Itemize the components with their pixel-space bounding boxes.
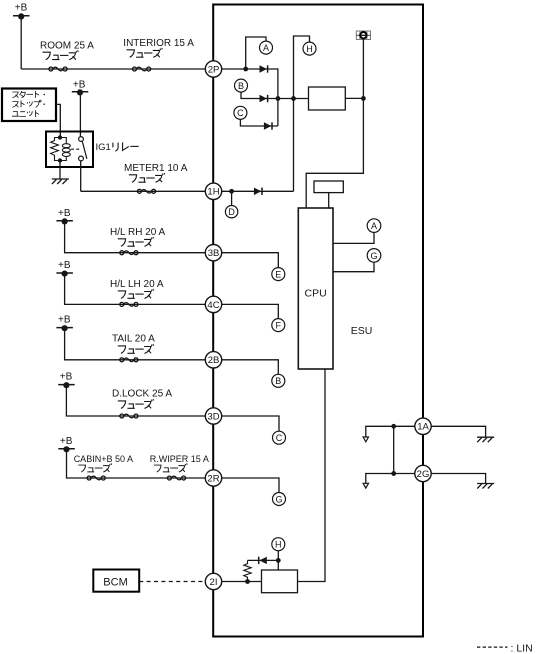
node A (circle) bbox=[260, 41, 273, 54]
svg-text:A: A bbox=[263, 43, 269, 53]
connector 2I bbox=[205, 573, 221, 589]
node C (circle) bbox=[234, 106, 247, 119]
relay IG1 box bbox=[46, 132, 93, 168]
node junction dot 1H row bbox=[229, 189, 234, 194]
node +B6 terminal bbox=[58, 372, 74, 389]
node junction dot 2G row bbox=[391, 471, 396, 476]
svg-text:2P: 2P bbox=[208, 64, 220, 75]
wire 4C row to circle F bbox=[222, 304, 279, 318]
svg-text:3B: 3B bbox=[208, 248, 220, 259]
relay actuator dashed link bbox=[71, 148, 80, 150]
svg-text:D.LOCK 25 A: D.LOCK 25 A bbox=[112, 389, 172, 400]
svg-text:TAIL 20 A: TAIL 20 A bbox=[112, 334, 155, 345]
diode D-1H row bbox=[254, 188, 262, 195]
svg-text:+B: +B bbox=[60, 436, 73, 447]
svg-text:H: H bbox=[306, 44, 313, 54]
ground right of 2G bbox=[477, 484, 494, 489]
wire elbow up to circle A bbox=[246, 37, 266, 69]
BCM box bbox=[93, 570, 139, 592]
svg-text:F: F bbox=[276, 321, 282, 331]
label フューズ (fuse) row2 bbox=[129, 173, 165, 182]
connector 2R bbox=[205, 470, 221, 486]
svg-text:METER1 10 A: METER1 10 A bbox=[124, 163, 188, 174]
ground right of 1A bbox=[477, 437, 494, 442]
svg-text:B: B bbox=[238, 81, 244, 91]
svg-text:G: G bbox=[370, 251, 377, 261]
svg-text:R.WIPER 15 A: R.WIPER 15 A bbox=[150, 454, 209, 464]
wire 2I row inside to small block bbox=[222, 581, 262, 583]
relay node top junction bbox=[58, 135, 62, 139]
svg-text:+B: +B bbox=[73, 80, 86, 91]
relay switch blade bbox=[82, 141, 87, 159]
svg-text:+B: +B bbox=[15, 3, 28, 14]
node junction dot right of R1 bbox=[361, 96, 366, 101]
node H2 (circle) bbox=[272, 538, 285, 551]
wire row1 horizontal to 2P bbox=[21, 68, 206, 70]
node C2 (circle) bbox=[273, 431, 286, 444]
fuse TAIL 20 A bbox=[112, 334, 155, 362]
connector 1A bbox=[415, 418, 431, 434]
wire 2B row to circle B2 bbox=[222, 360, 279, 375]
svg-text:2R: 2R bbox=[207, 473, 219, 484]
wire 2G row left with arrow bbox=[366, 474, 415, 484]
label フューズ (fuse) row3 bbox=[118, 237, 154, 246]
wire bolt symbol down through junction to CPU top bbox=[306, 40, 363, 209]
small block above CPU bbox=[314, 181, 343, 193]
node E (circle) bbox=[272, 268, 285, 281]
node +B4 terminal bbox=[56, 260, 72, 277]
wire +B1 down bbox=[20, 16, 22, 69]
wire +B4 down and row4 to 4C bbox=[65, 273, 206, 304]
svg-text:CABIN+B 50 A: CABIN+B 50 A bbox=[74, 454, 133, 464]
ESU box outline bbox=[213, 5, 423, 637]
wire 2G right to ground bbox=[431, 474, 485, 484]
relay coil resistor zigzag bbox=[51, 138, 60, 161]
wire 3B row to circle E bbox=[222, 253, 279, 268]
wire B elbow and row B bbox=[241, 92, 309, 98]
wire +B2 down to relay switch bbox=[79, 92, 81, 137]
node junction dot at 2P branch bbox=[243, 67, 248, 72]
wire 2R row to circle G bbox=[222, 478, 279, 493]
fuse R.WIPER 15 A bbox=[150, 454, 209, 480]
node G2 (circle) bbox=[367, 249, 381, 263]
node +B2 terminal bbox=[72, 80, 89, 96]
wire unit box to relay coil bbox=[56, 104, 60, 137]
svg-text:B: B bbox=[275, 376, 281, 386]
resistor block R1 bbox=[309, 87, 346, 110]
wire 2P to junction and diode row A bbox=[222, 69, 278, 126]
svg-text:4C: 4C bbox=[207, 300, 219, 311]
legend LIN dashed sample bbox=[477, 646, 508, 648]
svg-text:C: C bbox=[276, 433, 283, 443]
connector 3D bbox=[205, 408, 221, 424]
node junction dot under H2 bbox=[276, 558, 281, 563]
svg-text:+B: +B bbox=[58, 315, 71, 326]
connector 2G bbox=[415, 465, 431, 481]
svg-text:ESU: ESU bbox=[351, 325, 373, 337]
svg-text:IG1: IG1 bbox=[96, 142, 111, 153]
node junction dot 2I row bbox=[245, 579, 250, 584]
svg-text:2G: 2G bbox=[417, 469, 430, 480]
node A2 (circle) bbox=[367, 219, 381, 233]
wire 3D row to circle C2 bbox=[222, 416, 279, 431]
connector 3B bbox=[205, 245, 221, 261]
wire stub down to circle D bbox=[231, 191, 233, 205]
wire up to circle H2 bbox=[277, 551, 279, 561]
wire H vertical up and elbow to circle H bbox=[294, 36, 310, 99]
svg-text:+B: +B bbox=[58, 208, 71, 219]
wire relay coil to ground bbox=[59, 161, 61, 180]
connector 2B bbox=[205, 352, 221, 368]
wire small block right to CPU bottom bbox=[298, 369, 326, 582]
label フューズ (fuse) row7a bbox=[78, 463, 111, 472]
svg-text:1H: 1H bbox=[207, 187, 219, 198]
node +B5 terminal bbox=[56, 315, 72, 332]
label フューズ (fuse) row1b bbox=[127, 48, 163, 57]
diode D-C row bbox=[264, 122, 272, 129]
fuse H/L RH 20 A bbox=[110, 227, 166, 255]
wire H vertical down to 1H row bbox=[293, 99, 295, 192]
wire small block to CPU top bbox=[328, 193, 330, 208]
fuse METER1 10 A bbox=[124, 163, 188, 193]
node +B1 terminal bbox=[13, 3, 30, 20]
svg-text:A: A bbox=[371, 221, 377, 231]
svg-text:H: H bbox=[275, 540, 282, 550]
wire R1 to bolt-ground vertical bbox=[345, 97, 363, 99]
wire relay switch down to METER1 row bbox=[80, 161, 82, 191]
wire +B5 down and row5 to 2B bbox=[65, 328, 206, 360]
svg-text:: LIN: : LIN bbox=[511, 642, 533, 654]
svg-text:H/L RH 20 A: H/L RH 20 A bbox=[110, 227, 166, 238]
svg-text:1A: 1A bbox=[417, 422, 429, 433]
label フューズ (fuse) row7b bbox=[154, 463, 187, 472]
wire C elbow and row C bbox=[240, 119, 278, 126]
relay node bottom junction bbox=[58, 158, 62, 162]
node D (circle) bbox=[225, 206, 237, 218]
node G (circle) bbox=[273, 493, 286, 506]
label フューズ (fuse) row6 bbox=[118, 399, 154, 408]
svg-text:2I: 2I bbox=[210, 577, 218, 588]
label フューズ (fuse) row4 bbox=[118, 289, 154, 298]
svg-text:INTERIOR 15 A: INTERIOR 15 A bbox=[123, 38, 194, 49]
arrow triangle 2G bbox=[363, 483, 368, 488]
connector 4C bbox=[205, 296, 221, 312]
wire interconnect 1A-2G bbox=[393, 426, 395, 473]
wire 1A row left with arrow bbox=[366, 426, 415, 437]
label フューズ (fuse) row5 bbox=[118, 344, 154, 353]
wire +B7 down and row7 to 2R bbox=[67, 449, 206, 478]
node junction dot row B at vertical bbox=[276, 96, 281, 101]
svg-text:+B: +B bbox=[60, 372, 73, 383]
diode D-A row bbox=[260, 65, 268, 72]
small block bottom bbox=[262, 570, 298, 593]
node +B7 terminal bbox=[58, 436, 75, 453]
CPU block bbox=[298, 208, 333, 369]
label スタート・ストップ・ユニット bbox=[12, 91, 45, 117]
wire resistor top to diode row bbox=[248, 559, 279, 561]
fuse D.LOCK 25 A bbox=[112, 389, 172, 418]
start-stop unit box bbox=[2, 89, 56, 122]
svg-text:C: C bbox=[237, 108, 244, 118]
fuse H/L LH 20 A bbox=[110, 279, 164, 306]
wire +B3 down and row3 to 3B bbox=[65, 221, 206, 253]
wire row2 METER1 horizontal to 1H bbox=[81, 190, 206, 192]
node junction dot row B at H vertical bbox=[291, 96, 296, 101]
connector 1H bbox=[205, 183, 221, 199]
wire CPU right to circle G2 bbox=[333, 262, 374, 271]
svg-text:E: E bbox=[275, 270, 281, 280]
node H (circle) top bbox=[303, 42, 316, 55]
wire CPU right to circle A2 bbox=[333, 232, 374, 243]
connector 2P bbox=[205, 61, 221, 77]
svg-text:CPU: CPU bbox=[305, 287, 327, 299]
diode D-B row bbox=[260, 95, 268, 102]
fuse INTERIOR 15 A bbox=[123, 38, 194, 71]
svg-text:+B: +B bbox=[58, 260, 71, 271]
ground bolt symbol bbox=[356, 31, 370, 40]
diode D-bottom pointing left bbox=[259, 557, 267, 564]
ground under relay bbox=[52, 179, 69, 184]
arrow triangle 1A bbox=[363, 437, 368, 442]
label IG1リレー bbox=[96, 142, 139, 153]
resistor vertical zigzag bbox=[244, 560, 251, 581]
svg-text:BCM: BCM bbox=[103, 577, 127, 589]
node +B3 terminal bbox=[56, 208, 72, 225]
svg-text:ROOM 25 A: ROOM 25 A bbox=[40, 40, 94, 51]
node B2 (circle) bbox=[272, 374, 285, 387]
svg-text:G: G bbox=[275, 494, 282, 504]
svg-text:H/L LH 20 A: H/L LH 20 A bbox=[110, 279, 164, 290]
fuse ROOM 25 A bbox=[40, 40, 94, 71]
wire +B6 down and row6 to 3D bbox=[66, 385, 205, 416]
wire 1A right to ground bbox=[431, 426, 485, 437]
wire junction down to small block top bbox=[277, 560, 279, 570]
label フューズ (fuse) row1a bbox=[43, 50, 79, 59]
svg-text:3D: 3D bbox=[207, 411, 219, 422]
relay coil windings bbox=[60, 138, 70, 161]
svg-text:D: D bbox=[228, 207, 235, 217]
node F (circle) bbox=[272, 319, 285, 332]
svg-text:2B: 2B bbox=[208, 355, 220, 366]
node B (circle) bbox=[235, 79, 248, 92]
wire 1H row with diode bbox=[222, 190, 294, 192]
fuse CABIN+B 50 A bbox=[74, 454, 133, 480]
relay switch contacts bbox=[79, 137, 84, 161]
wire BCM to 2I dashed (LIN) bbox=[139, 581, 204, 583]
node junction dot 1A row bbox=[391, 424, 396, 429]
